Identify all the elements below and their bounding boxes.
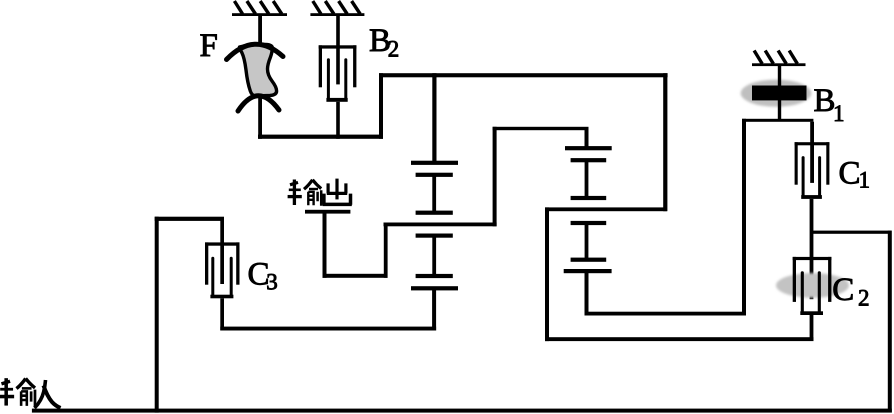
wire: shaft below C2 to low horizontal bbox=[810, 315, 814, 341]
freewheel F top arc bbox=[227, 44, 284, 59]
ground G3 (above brake B1) bbox=[752, 51, 806, 67]
svg-text:1: 1 bbox=[833, 101, 845, 126]
gear bar R2 bbox=[571, 158, 607, 162]
gear bar L5 bbox=[416, 274, 453, 278]
wire: left vertical from upper horizontal down to input line bbox=[155, 217, 159, 413]
svg-text:2: 2 bbox=[858, 286, 870, 311]
wire: C3 top shaft bbox=[220, 217, 224, 284]
gear bar R1 bbox=[565, 146, 612, 150]
wire: left carrier bar bbox=[384, 223, 497, 227]
wire: upper horizontal to C3 shaft bbox=[155, 217, 224, 221]
wire: right carrier bar bbox=[545, 207, 667, 211]
svg-text:F: F bbox=[200, 28, 218, 64]
gear bar L1 bbox=[411, 161, 458, 165]
wire: input bottom line bbox=[32, 409, 892, 413]
wire: drop from line B to left gear column bbox=[432, 73, 436, 162]
wire: right riser down to input line bbox=[888, 231, 892, 413]
wire: junction horizontal to right riser bbox=[812, 231, 892, 234]
gear bar L4 bbox=[416, 234, 453, 238]
wire: shaft C1 to C2 (through junction) bbox=[810, 199, 814, 299]
wire: shaft from G3 through B1 bbox=[778, 66, 781, 120]
gear bar R4 bbox=[571, 221, 607, 225]
clutch C2 gray ellipse bbox=[776, 273, 849, 298]
ground G2 (above brake B2) bbox=[310, 1, 364, 16]
wire: line A (F and B2 shafts to riser) bbox=[258, 135, 383, 139]
wire: output horizontal bbox=[323, 274, 388, 278]
freewheel F sprag blob bbox=[240, 44, 277, 96]
gear bar L6 bbox=[411, 286, 458, 290]
right planetary gear column bbox=[564, 146, 612, 273]
label 输入 (input) bbox=[0, 378, 35, 406]
svg-text:1: 1 bbox=[859, 168, 871, 193]
wire: riser from B1 branch down bbox=[742, 119, 746, 316]
wire: right column top shaft bbox=[585, 128, 589, 147]
clutch C2 bbox=[793, 257, 832, 315]
wire: C3 bottom horizontal to left column bbox=[220, 327, 436, 331]
wire: drop from left carrier to output horizontal bbox=[384, 223, 388, 278]
wire: output shaft bbox=[323, 211, 327, 278]
wire: horizontal to riser at 744 bbox=[585, 312, 747, 316]
gear bar R5 bbox=[571, 258, 607, 262]
wire: shaft from G2 into B2 bbox=[336, 16, 340, 85]
gear bar L3 bbox=[416, 211, 453, 215]
gear bar L2 bbox=[416, 173, 453, 177]
brake B1 bbox=[741, 80, 812, 107]
left planetary gear column bbox=[411, 161, 458, 291]
wire: shaft from G1 through freewheel F down to line A bbox=[258, 16, 262, 139]
wire: shaft R4-R5 bbox=[585, 223, 589, 259]
wire: drop from right carrier down bbox=[545, 207, 549, 341]
wire: shaft from B1 branch into C1 bbox=[810, 122, 814, 183]
wire: B1 branch horizontal bbox=[742, 119, 813, 122]
svg-text:C: C bbox=[832, 272, 854, 308]
wire: shaft R2-R3 bbox=[585, 161, 589, 196]
svg-text:C: C bbox=[839, 155, 861, 191]
clutch C1 bbox=[795, 142, 830, 199]
wire: right column bottom shaft bbox=[585, 271, 589, 316]
freewheel F bottom arc bbox=[238, 96, 279, 111]
wire: riser line C left end down to left carrier bbox=[493, 127, 497, 227]
ground G1 (above freewheel F) bbox=[232, 1, 287, 16]
svg-text:2: 2 bbox=[388, 37, 400, 62]
wire: shaft below B2 to line A bbox=[336, 102, 340, 139]
wire: drop from line B to right carrier bbox=[663, 73, 667, 211]
clutch C3 bbox=[205, 242, 240, 298]
wire: line C bbox=[493, 127, 589, 130]
wire: shaft L4-L5 bbox=[432, 236, 436, 275]
wire: line B (top long horizontal) bbox=[379, 73, 668, 77]
wire: output T-bar bbox=[305, 210, 350, 214]
wire: riser from line A up to line B bbox=[379, 73, 383, 139]
gear bar R3 bbox=[571, 196, 607, 200]
wire: low horizontal to C2 shaft bbox=[545, 337, 814, 341]
wire: left column bottom shaft bbox=[432, 289, 436, 331]
brake B2 bbox=[319, 45, 357, 102]
wire: shaft L2-L3 bbox=[432, 176, 436, 212]
gear bar R6 bbox=[564, 269, 612, 273]
wire: C3 bottom shaft bbox=[220, 298, 224, 330]
svg-text:3: 3 bbox=[266, 269, 278, 294]
